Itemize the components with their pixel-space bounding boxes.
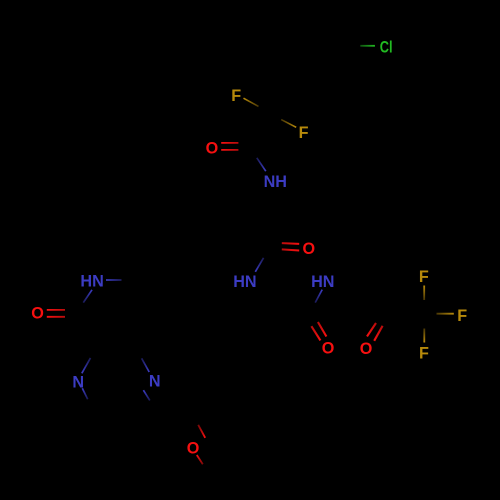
atom HN3 xyxy=(311,273,334,291)
svg-text:O: O xyxy=(187,439,200,457)
svg-text:O: O xyxy=(322,340,335,358)
atom F3 xyxy=(419,268,429,286)
atom O6 xyxy=(187,439,200,457)
atom NH1 xyxy=(264,173,287,191)
svg-text:O: O xyxy=(206,140,219,158)
svg-text:F: F xyxy=(419,345,429,363)
svg-text:O: O xyxy=(360,340,373,358)
bond C-N (amide 3) xyxy=(315,290,322,303)
bond N-CH2 (amide 4, horizontal) xyxy=(106,279,122,281)
double bond C=O2 (amide 2) xyxy=(282,243,299,250)
svg-text:NH: NH xyxy=(264,173,287,191)
double bond C=O1 (amide 1) xyxy=(221,143,238,150)
bond C-F3 xyxy=(423,286,425,301)
atom F4 xyxy=(457,307,467,325)
svg-text:F: F xyxy=(299,124,309,142)
bond C-N (amide 4, diagonal) xyxy=(83,290,92,303)
svg-text:HN: HN xyxy=(80,273,103,291)
svg-text:O: O xyxy=(303,240,316,258)
svg-text:F: F xyxy=(457,307,467,325)
atom O2 xyxy=(303,240,316,258)
bond C-N (amide 1) xyxy=(257,158,266,171)
bond O6-CH3 xyxy=(197,455,203,464)
bond C-N (amide 2) xyxy=(255,258,263,272)
svg-text:N: N xyxy=(72,374,84,392)
svg-text:HN: HN xyxy=(311,273,334,291)
double bond C=O4 (ketone) xyxy=(367,323,383,341)
bond ring N6-C lower xyxy=(143,390,149,400)
bond C-F2 xyxy=(281,120,296,128)
bond C-Cl (chlorophenyl) xyxy=(360,45,375,47)
double bond C=O3 (amide 3) xyxy=(311,322,326,340)
atom O4 xyxy=(360,340,373,358)
svg-text:F: F xyxy=(231,87,241,105)
svg-text:HN: HN xyxy=(233,273,256,291)
bond ring N5-C lower xyxy=(82,388,87,399)
bond aryl C-O6 xyxy=(198,425,205,438)
svg-text:Cl: Cl xyxy=(380,38,393,56)
atom N6 xyxy=(149,373,161,391)
svg-text:N: N xyxy=(149,373,161,391)
atom N5 xyxy=(72,374,84,392)
bond C-F5 xyxy=(423,329,425,343)
atom O3 xyxy=(322,340,335,358)
double bond C=O5 (amide 4) xyxy=(47,310,65,317)
atom O1 xyxy=(206,140,219,158)
bond C-F1 xyxy=(244,98,259,106)
atom Cl xyxy=(380,38,393,56)
atom HN4 xyxy=(80,273,103,291)
bond C-F4 xyxy=(437,313,454,315)
atom F1 xyxy=(231,87,241,105)
atom F5 xyxy=(419,345,429,363)
atom F2 xyxy=(299,124,309,142)
atom HN2 xyxy=(233,273,256,291)
bond ring C-N5 upper xyxy=(82,358,91,373)
svg-text:F: F xyxy=(419,268,429,286)
svg-text:O: O xyxy=(31,304,44,322)
bond ring C-N6 upper xyxy=(142,358,150,372)
atom O5 xyxy=(31,304,44,322)
